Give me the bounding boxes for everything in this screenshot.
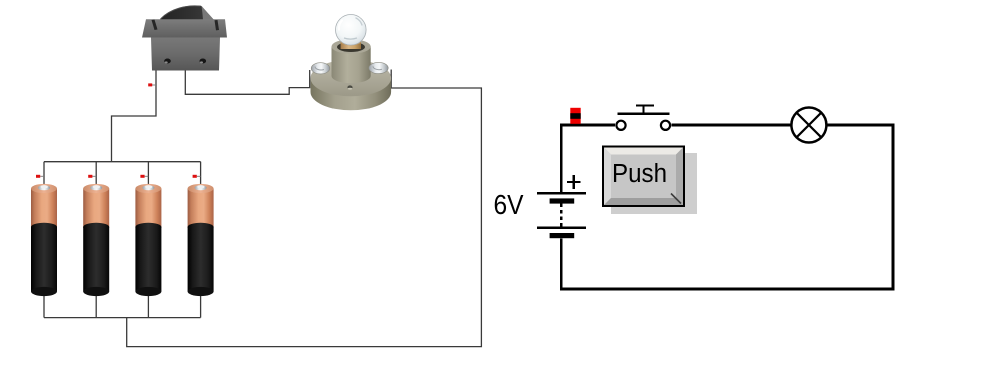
- wire: battery B3 bottom stub: [147, 296, 149, 318]
- battery B2 (AA cell, pictorial): [83, 184, 109, 296]
- wire: battery B4 bottom stub: [200, 296, 202, 318]
- wire: battery B1 top stub: [43, 162, 45, 186]
- wire: schematic loop left vertical (battery top lead): [560, 125, 563, 192]
- current indicator (red) on switch left wire: [148, 83, 156, 86]
- svg-text:6V: 6V: [494, 189, 524, 220]
- wire: battery B1 bottom stub: [43, 296, 45, 318]
- wire: schematic top right (lamp to right corner): [827, 124, 894, 127]
- battery B1 (AA cell, pictorial): [31, 184, 57, 296]
- wire: battery bottom bus: [44, 317, 201, 319]
- current indicator (red) at battery B1 positive stub: [36, 175, 44, 178]
- wire: schematic top middle (push switch to lamp): [671, 124, 790, 127]
- battery symbol BT1 (two cells with dashed middle): [537, 175, 586, 238]
- wire: battery top bus: [44, 161, 201, 163]
- current indicator (red) at battery B3 positive stub: [140, 175, 148, 178]
- lamp symbol L1 (circle with X): [791, 108, 826, 143]
- wire: switch SW1 left terminal down-left to battery top bus: [112, 71, 157, 162]
- wire: battery B4 top stub: [200, 162, 202, 186]
- battery B3 (AA cell, pictorial): [135, 184, 161, 296]
- Push button graphic (on-screen control): [602, 146, 697, 215]
- battery B4 (AA cell, pictorial): [188, 184, 214, 296]
- wire: schematic loop bottom lead from battery negative: [560, 239, 563, 290]
- rocker switch SW1 (pictorial): [142, 5, 227, 70]
- wire: schematic loop right vertical: [892, 125, 895, 290]
- wire: schematic loop bottom horizontal: [560, 288, 894, 291]
- current indicator (red) at battery B4 positive stub: [193, 175, 201, 178]
- current indicator (red) at battery B2 positive stub: [88, 175, 96, 178]
- wire: battery B2 top stub: [95, 162, 97, 186]
- svg-text:Push: Push: [612, 160, 667, 188]
- current indicator (red) on schematic top-left wire: [570, 108, 580, 124]
- wire: battery B3 top stub: [147, 162, 149, 186]
- lamp holder LP1 with bulb (pictorial): [311, 14, 392, 110]
- push-to-make switch symbol S1: [616, 106, 670, 130]
- wire: schematic top left (corner to push switch): [560, 124, 615, 127]
- wire: lamp holder right screw to battery bottom feed (right loop of left circuit): [127, 70, 482, 347]
- wire: battery B2 bottom stub: [95, 296, 97, 318]
- wire: switch SW1 right terminal to lamp holder left screw: [185, 70, 309, 94]
